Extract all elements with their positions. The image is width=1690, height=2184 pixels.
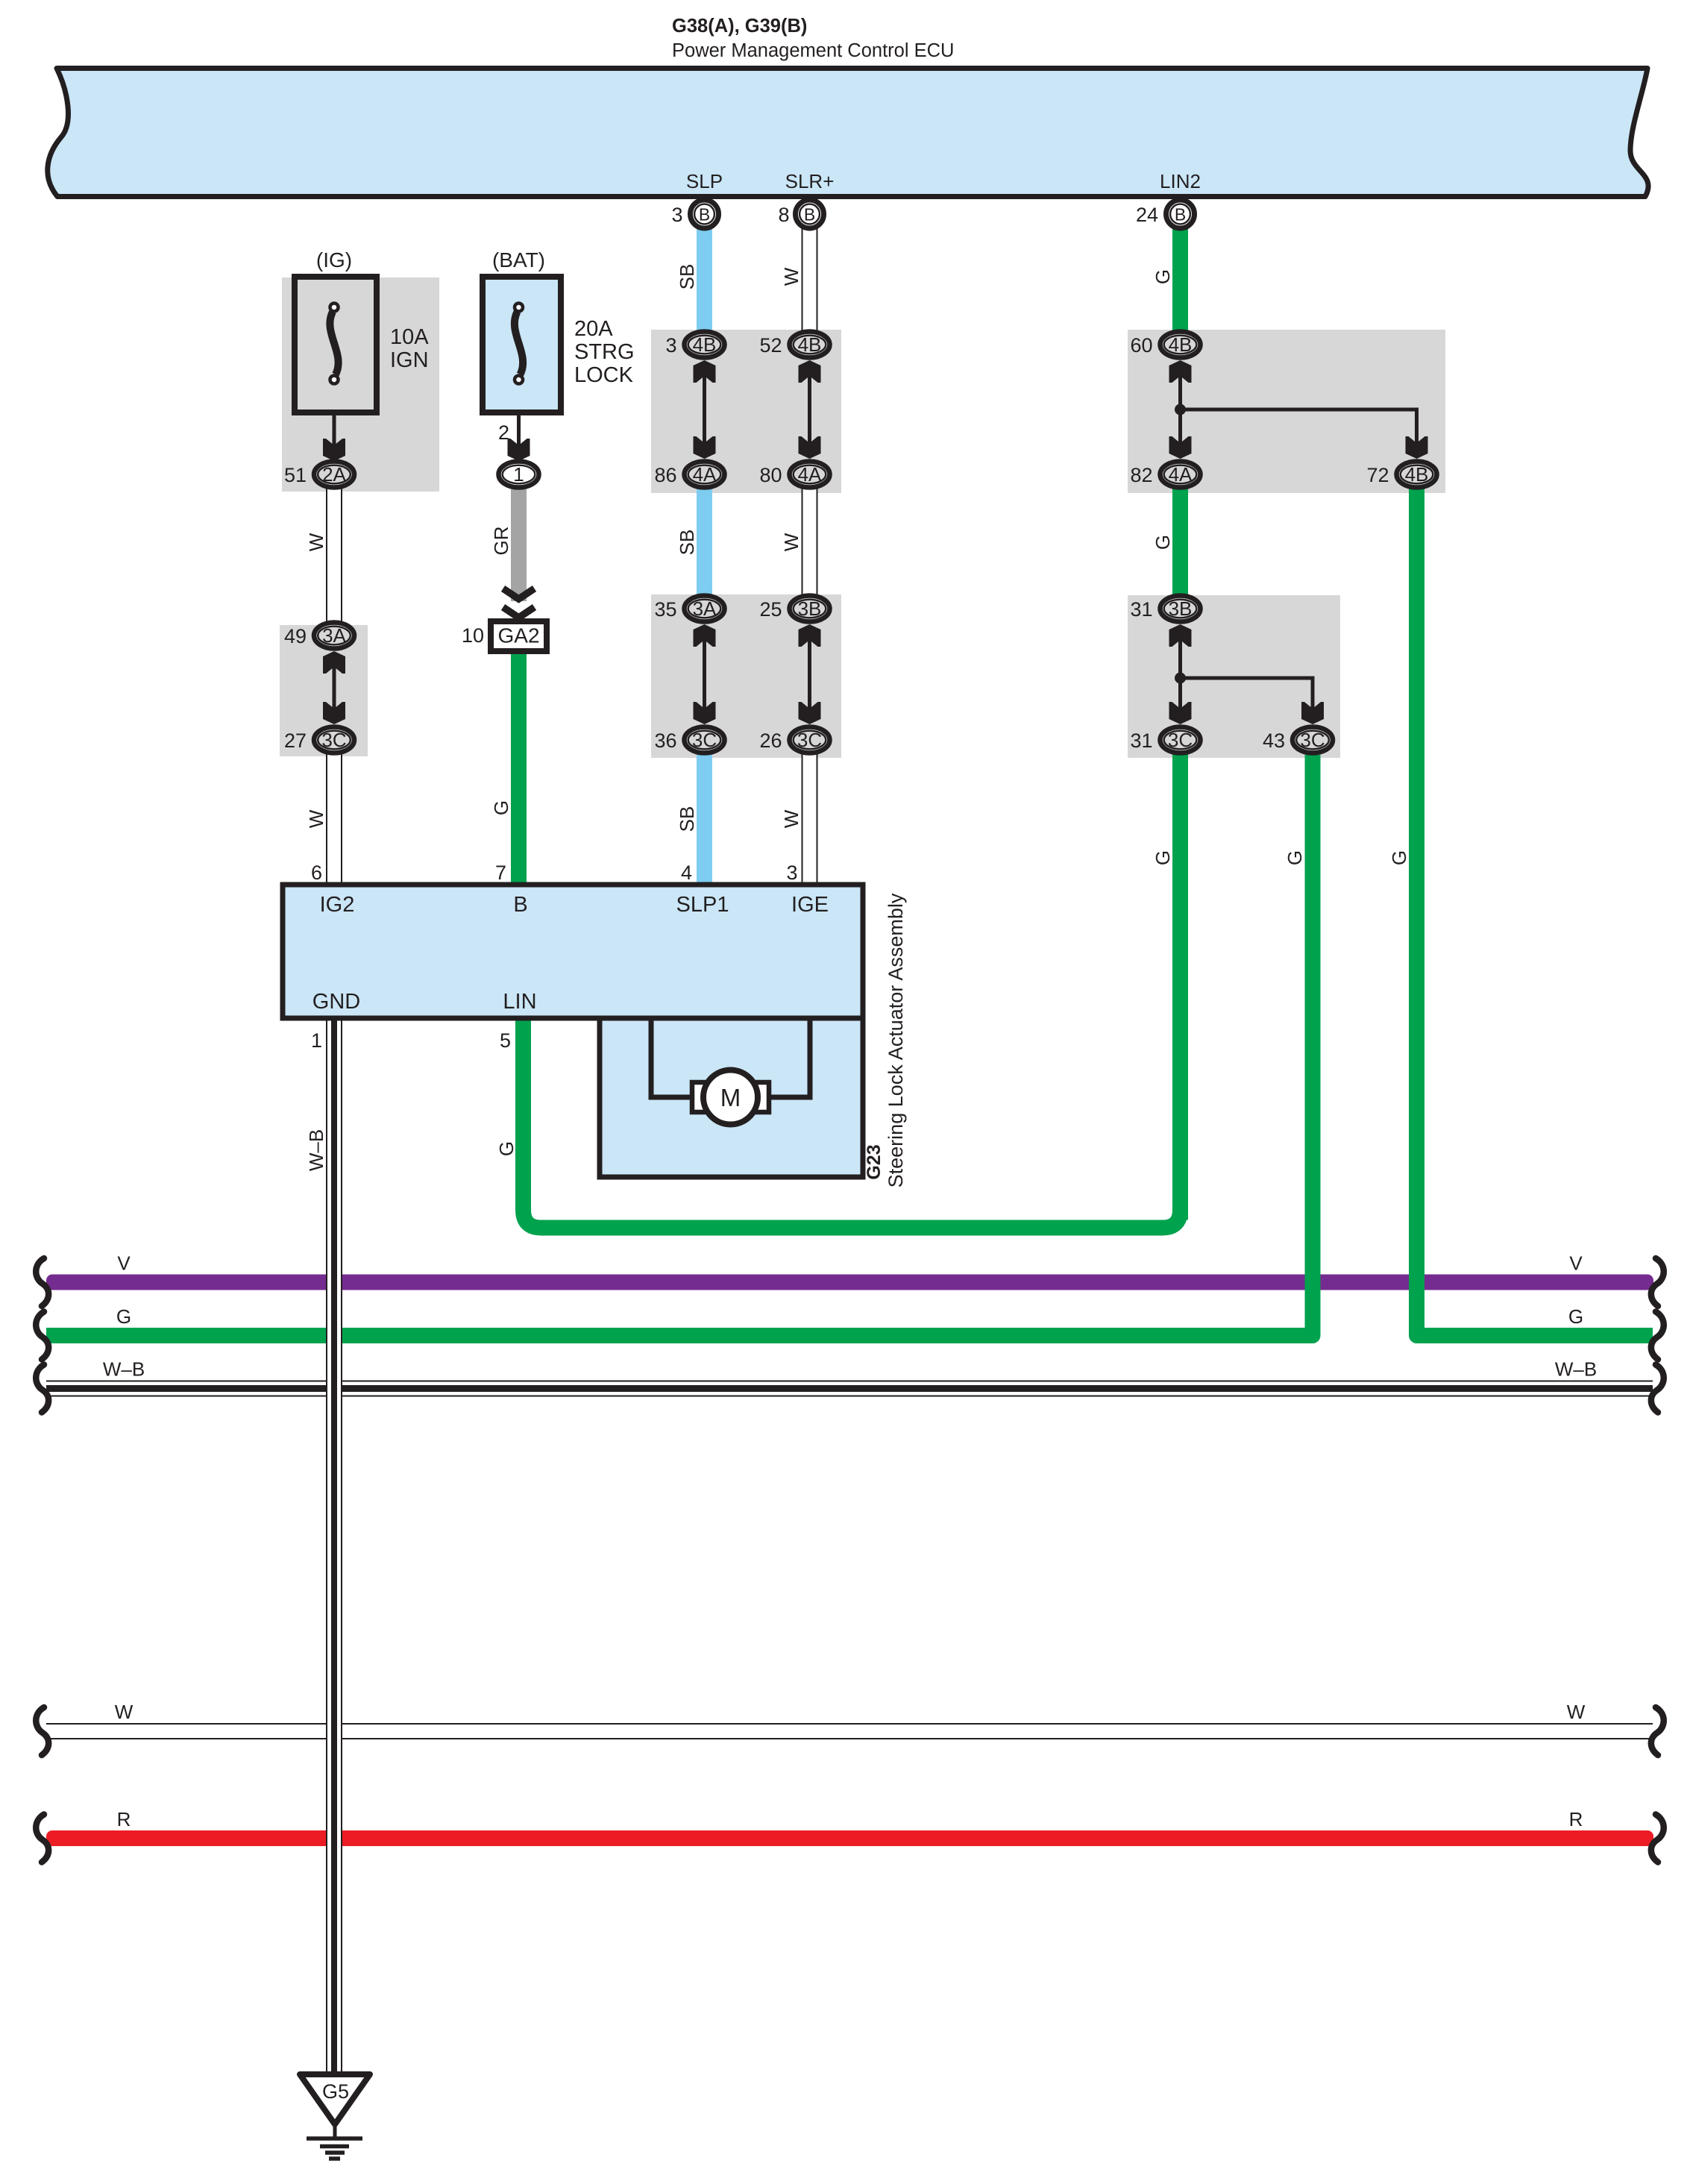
svg-text:3: 3: [665, 334, 676, 357]
connector 4B pin 72: [1397, 462, 1437, 488]
svg-text:3: 3: [671, 204, 682, 226]
svg-text:LOCK: LOCK: [574, 363, 634, 387]
connector 1 (BAT fuse): [499, 462, 539, 488]
wire W-B (GND pin 1 to ground G5): [326, 1018, 342, 2074]
brace right y=2321: [1651, 1707, 1664, 1755]
svg-text:R: R: [117, 1808, 131, 1830]
svg-text:W: W: [115, 1701, 133, 1723]
connector 2A pin 51: [314, 462, 354, 488]
svg-text:G: G: [116, 1305, 131, 1328]
svg-text:43: 43: [1263, 729, 1285, 752]
connector block 4B/4A (LIN2): [1128, 330, 1445, 493]
connector 3C pin 36: [685, 727, 725, 753]
wire W-B bus: [46, 1381, 1653, 1397]
connector 4A pin 82: [1160, 462, 1201, 488]
svg-text:4A: 4A: [798, 463, 822, 486]
svg-text:W: W: [305, 533, 327, 551]
svg-text:3A: 3A: [693, 597, 717, 620]
wire SB (3C to SLP1 pin 4): [697, 753, 712, 885]
connector 4B pin 60: [1160, 332, 1201, 358]
svg-text:IG2: IG2: [320, 893, 355, 917]
fuse 20A STRG LOCK (BAT): [483, 277, 561, 412]
svg-text:(IG): (IG): [316, 248, 352, 272]
svg-text:STRG: STRG: [574, 340, 635, 364]
connector block 3B/3C (LIN2): [1128, 595, 1340, 758]
wire G bus left segment joining 43-3C drop: [46, 755, 1313, 1336]
svg-text:IGN: IGN: [390, 348, 429, 372]
arrow 3B-31 branch to 3C-31 and 3C-43: [1169, 624, 1192, 647]
connector block 4B/4A (SLP,SLR+): [651, 330, 841, 493]
svg-text:W: W: [780, 809, 802, 828]
arrow 3A to 3C (IG column): [323, 651, 345, 674]
wire G (GA2 to B pin 7): [511, 650, 527, 885]
arrow 3B to 3C (SLR+): [799, 624, 821, 647]
svg-text:G: G: [1152, 850, 1174, 865]
motor M: [651, 1018, 695, 1097]
svg-text:(BAT): (BAT): [492, 248, 545, 272]
svg-text:B: B: [513, 893, 527, 917]
junction dot 4B branch: [1175, 404, 1186, 415]
ground G5: [300, 2074, 370, 2124]
svg-text:82: 82: [1130, 464, 1152, 486]
svg-text:LIN2: LIN2: [1160, 170, 1201, 192]
svg-text:Power Management Control ECU: Power Management Control ECU: [672, 40, 954, 61]
connector 4A pin 86: [685, 462, 725, 488]
svg-text:3C: 3C: [692, 729, 717, 751]
fuse 10A IGN (IG): [295, 277, 377, 412]
svg-text:LIN: LIN: [503, 990, 536, 1014]
brace right y=1719: [1651, 1258, 1664, 1306]
arrow fuse BAT to connector 1: [517, 412, 521, 451]
brace right y=1790.5: [1651, 1312, 1664, 1360]
arrow 4B to 4A (SLP): [694, 360, 716, 383]
svg-text:4: 4: [681, 862, 692, 884]
svg-text:8: 8: [778, 204, 789, 226]
connector 3A pin 49: [314, 623, 354, 649]
arrow 4B-60 branch to 4A-82 and 4B-72: [1169, 360, 1192, 383]
svg-text:G5: G5: [322, 2080, 349, 2103]
svg-text:4B: 4B: [1405, 463, 1429, 486]
svg-text:1: 1: [311, 1029, 322, 1052]
svg-text:SLP: SLP: [686, 170, 723, 192]
wire V bus: [46, 1275, 1653, 1290]
svg-text:24: 24: [1136, 204, 1158, 226]
arrow 4B to 4A (SLR+): [799, 360, 821, 383]
connector 3C pin 31: [1160, 727, 1201, 753]
wire GR (fuse 1 to GA2): [511, 489, 527, 601]
svg-text:49: 49: [284, 625, 307, 647]
svg-text:SB: SB: [676, 806, 698, 832]
svg-text:G: G: [1568, 1305, 1583, 1328]
Steering Lock Actuator Assembly G23 box: [283, 885, 863, 1018]
connector 4A pin 80: [790, 462, 830, 488]
brace left y=2464.5: [36, 1815, 48, 1863]
svg-text:Steering Lock Actuator Assembl: Steering Lock Actuator Assembly: [885, 893, 907, 1187]
connector 3A pin 35: [685, 596, 725, 622]
svg-text:B: B: [699, 205, 710, 225]
svg-text:4B: 4B: [1169, 333, 1193, 356]
brace left y=1790.5: [36, 1312, 48, 1360]
svg-text:3C: 3C: [1300, 729, 1325, 751]
wire R bus: [46, 1830, 1653, 1846]
brace right y=2464.5: [1651, 1815, 1664, 1863]
svg-text:7: 7: [495, 862, 506, 884]
svg-text:G: G: [1284, 850, 1306, 865]
wire W (3C to IGE pin 3): [802, 753, 818, 885]
svg-text:R: R: [1569, 1808, 1583, 1830]
svg-text:GA2: GA2: [497, 624, 539, 647]
ECU G38(A),G39(B) Power Management Control ECU band: [48, 69, 1648, 197]
svg-text:G: G: [495, 1141, 518, 1156]
svg-text:G38(A), G39(B): G38(A), G39(B): [672, 16, 807, 37]
svg-text:M: M: [720, 1084, 741, 1111]
svg-text:3B: 3B: [1169, 597, 1193, 620]
connector 3C pin 43: [1292, 727, 1333, 753]
arrow 3A to 3C (SLP): [694, 624, 716, 647]
wire G (4A to 3B): [1172, 489, 1188, 597]
connector 3B pin 31: [1160, 596, 1201, 622]
svg-text:35: 35: [654, 598, 676, 621]
svg-text:10: 10: [462, 624, 484, 647]
svg-text:4A: 4A: [1169, 463, 1193, 486]
svg-text:V: V: [117, 1252, 131, 1275]
connector 4B pin 52: [790, 332, 830, 358]
svg-text:G: G: [1152, 269, 1174, 284]
svg-text:3B: 3B: [798, 597, 822, 620]
svg-text:IGE: IGE: [791, 893, 829, 917]
svg-text:36: 36: [654, 729, 676, 752]
svg-text:W–B: W–B: [103, 1358, 145, 1381]
svg-text:31: 31: [1130, 729, 1152, 752]
brace left y=2321: [36, 1707, 48, 1755]
brace right y=1861.5: [1651, 1365, 1664, 1413]
svg-text:4B: 4B: [798, 333, 822, 356]
splice GA2: [491, 621, 547, 651]
svg-text:31: 31: [1130, 598, 1152, 621]
svg-text:52: 52: [759, 334, 782, 357]
double chevron into GA2: [503, 589, 535, 599]
svg-text:72: 72: [1366, 464, 1389, 486]
svg-text:2A: 2A: [322, 463, 346, 486]
brace left y=1861.5: [36, 1365, 48, 1413]
svg-text:86: 86: [654, 464, 676, 486]
svg-text:4B: 4B: [693, 333, 717, 356]
svg-text:60: 60: [1130, 334, 1152, 357]
svg-text:1: 1: [513, 463, 524, 486]
wire G bus right segment joining 72-4B drop: [1417, 489, 1653, 1336]
connector 3B pin 25: [790, 596, 830, 622]
svg-text:V: V: [1569, 1252, 1583, 1275]
connector block (IG fuse holder): [282, 277, 439, 492]
svg-text:5: 5: [500, 1029, 511, 1052]
wire G LIN path (pin 5 down and right): [524, 753, 1181, 1228]
svg-text:W: W: [780, 267, 802, 286]
wire SB (ECU pin 3B to 4B): [697, 224, 712, 331]
svg-text:10A: 10A: [390, 325, 429, 349]
svg-text:2: 2: [498, 421, 509, 444]
junction dot 3B branch: [1175, 673, 1186, 684]
svg-text:SB: SB: [676, 530, 698, 556]
svg-text:B: B: [1175, 205, 1186, 225]
svg-text:GND: GND: [312, 990, 360, 1014]
svg-text:SLP1: SLP1: [676, 893, 729, 917]
svg-text:G23: G23: [864, 1144, 885, 1179]
svg-text:W–B: W–B: [1555, 1358, 1597, 1381]
svg-text:G: G: [490, 800, 512, 815]
connector 4B pin 3: [685, 332, 725, 358]
wire W column IG (2A to 3A): [326, 489, 342, 625]
svg-text:B: B: [804, 205, 815, 225]
wire W bus: [46, 1723, 1653, 1739]
svg-text:20A: 20A: [574, 317, 613, 341]
svg-text:W: W: [1567, 1701, 1586, 1723]
brace left y=1719: [36, 1258, 48, 1306]
svg-text:SLR+: SLR+: [785, 170, 835, 192]
svg-text:4A: 4A: [693, 463, 717, 486]
svg-text:3C: 3C: [1168, 729, 1193, 751]
svg-text:26: 26: [759, 729, 782, 752]
svg-text:W: W: [305, 809, 327, 828]
svg-text:3A: 3A: [322, 624, 346, 647]
connector block 3A/3C (column IG): [280, 625, 368, 756]
svg-text:W: W: [780, 533, 802, 551]
wire G (ECU pin 24B to 4B): [1172, 224, 1188, 331]
connector 3C pin 26: [790, 727, 830, 753]
svg-text:25: 25: [759, 598, 782, 621]
svg-text:G: G: [1388, 850, 1410, 865]
svg-text:3C: 3C: [321, 729, 346, 751]
svg-text:GR: GR: [490, 527, 512, 556]
svg-text:G: G: [1152, 535, 1174, 550]
wire SB (4A to 3A): [697, 489, 712, 595]
wire W (4A to 3B): [802, 489, 818, 595]
svg-text:6: 6: [311, 862, 322, 884]
wire W (ECU pin 8B to 4B): [802, 224, 818, 331]
svg-text:3C: 3C: [797, 729, 822, 751]
pin 24 B (LIN2): [1166, 200, 1195, 228]
pin 8 B (SLR+): [796, 200, 824, 228]
svg-text:27: 27: [284, 729, 307, 752]
connector 3C pin 27: [314, 727, 354, 753]
svg-text:3: 3: [786, 862, 797, 884]
svg-text:51: 51: [284, 464, 307, 486]
svg-text:80: 80: [759, 464, 782, 486]
svg-text:W–B: W–B: [305, 1129, 327, 1171]
arrow fuse IG to connector 2A: [333, 412, 336, 451]
wire G (3C down to LIN junction): [1172, 753, 1188, 1220]
wire W column IG (3C to IG2 pin 6): [326, 754, 342, 885]
connector block 3A/3B/3C (SLP,SLR+): [651, 594, 841, 758]
svg-text:SB: SB: [676, 264, 698, 290]
pin 3 B (SLP): [691, 200, 719, 228]
